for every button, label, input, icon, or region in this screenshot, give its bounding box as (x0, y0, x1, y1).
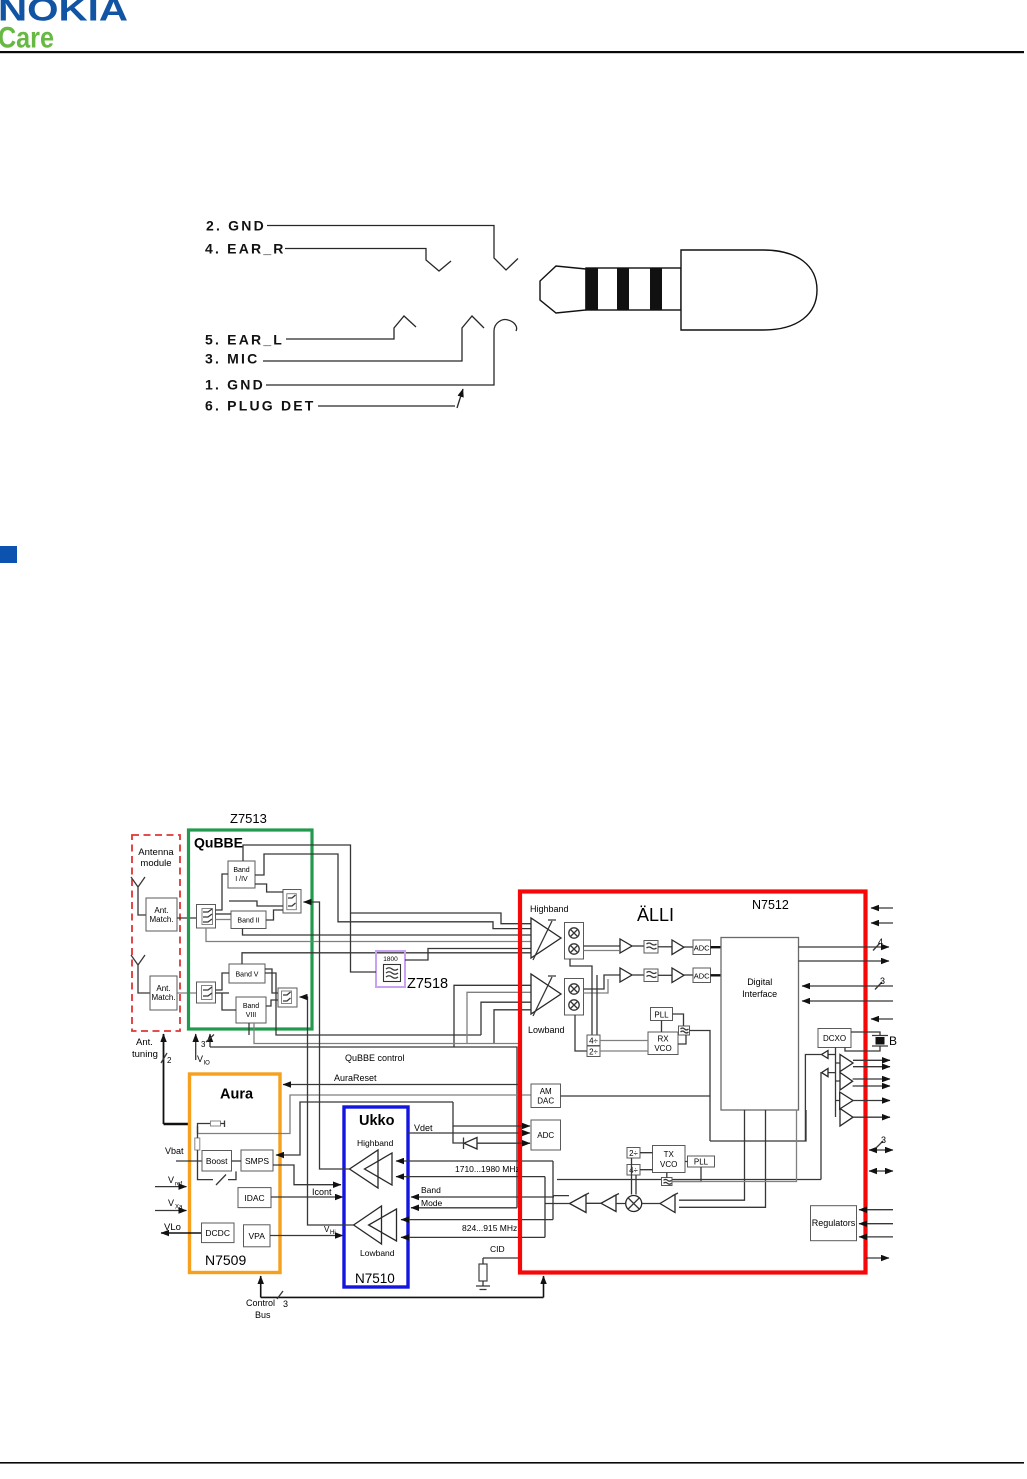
svg-text:1710...1980 MHz: 1710...1980 MHz (455, 1164, 520, 1174)
Z7518 filter module (376, 951, 405, 987)
wire 4. EAR_R with contact (285, 249, 451, 272)
IDAC box (238, 1188, 271, 1208)
svg-text:VIII: VIII (246, 1012, 257, 1019)
svg-text:1. GND: 1. GND (205, 377, 265, 393)
combiner switch box 1 (283, 890, 301, 914)
svg-text:ADC: ADC (537, 1131, 554, 1140)
svg-text:IO: IO (204, 1061, 211, 1067)
svg-text:AuraReset: AuraReset (334, 1073, 377, 1083)
wire HB mixer second output (584, 950, 620, 952)
bus LB ADC to digital interface (711, 974, 722, 976)
ADC box (Vdet) (531, 1120, 561, 1150)
wire LB mixer to baseband amp (584, 975, 621, 989)
wire buffer to LB ADC (684, 974, 693, 976)
svg-text:DCDC: DCDC (205, 1228, 230, 1238)
wire HB mixer LO tap to divider (570, 959, 592, 1035)
wire 6. PLUG DET with arrow (318, 405, 455, 407)
Lowband LNA triangle (531, 974, 561, 1014)
svg-text:Bus: Bus (255, 1310, 271, 1320)
plug ring 2 (617, 268, 629, 310)
svg-text:Lowband: Lowband (528, 1025, 565, 1035)
TX section (627, 1148, 640, 1159)
Band I/IV box (228, 861, 255, 888)
Ukko HB output up to QuBBE combiner (304, 902, 350, 1169)
Ukko LB output up to QuBBE combiner (300, 997, 354, 1225)
svg-text:PLL: PLL (694, 1158, 709, 1167)
svg-text:6. PLUG DET: 6. PLUG DET (205, 398, 316, 414)
TX mixer (626, 1196, 642, 1212)
loop verticals (545, 1161, 553, 1237)
vertical resistor (195, 1138, 200, 1150)
svg-text:ADC: ADC (694, 944, 710, 953)
svg-text:VCO: VCO (654, 1044, 671, 1053)
svg-text:1800: 1800 (383, 956, 398, 963)
Highband mixer box (565, 923, 584, 960)
svg-text:Mode: Mode (421, 1198, 443, 1208)
svg-text:Aura: Aura (220, 1087, 254, 1103)
wire QuBBE to ALLI highband 4 (gray) (206, 928, 531, 942)
SMPS box (241, 1150, 273, 1171)
wire QuBBE to ALLI highband 3 (243, 929, 532, 936)
Aura orange box (190, 1074, 281, 1273)
svg-text:Interface: Interface (742, 989, 777, 999)
svg-text:Regulators: Regulators (812, 1218, 856, 1228)
wire antmatch2 to switch (177, 992, 197, 994)
svg-text:V: V (168, 1198, 174, 1208)
antenna switch box 1 (197, 905, 216, 929)
svg-text:Ant.: Ant. (136, 1037, 153, 1048)
svg-text:PLL: PLL (654, 1011, 669, 1020)
svg-text:5. EAR_L: 5. EAR_L (205, 332, 284, 348)
clock buffer 2 (840, 1073, 853, 1091)
svg-text:Xa: Xa (175, 1205, 183, 1211)
svg-text:Highband: Highband (530, 904, 569, 914)
QuBBE internal wires lower (216, 973, 230, 990)
svg-text:Antenna: Antenna (138, 847, 174, 858)
plug shaft (586, 268, 681, 310)
Ukko blue box (344, 1107, 408, 1287)
svg-text:824...915 MHz: 824...915 MHz (462, 1223, 517, 1233)
svg-text:N7509: N7509 (205, 1252, 246, 1268)
diode (464, 1138, 477, 1150)
QuBBE bottom Vio arrow (195, 1034, 197, 1060)
bottom right output (866, 1257, 889, 1259)
svg-text:Band II: Band II (237, 918, 259, 925)
wire LB chain LO tap to divider (587, 975, 597, 1046)
svg-text:3. MIC: 3. MIC (205, 351, 259, 367)
Regulators box (811, 1206, 857, 1241)
clock output arrows (853, 1059, 890, 1061)
bus HB ADC to digital interface (711, 946, 722, 948)
svg-text:2: 2 (167, 1056, 172, 1065)
wire QuBBE to ALLI lowband 4 (494, 1010, 531, 1044)
svg-text:I /IV: I /IV (235, 876, 248, 883)
svg-text:V: V (168, 1175, 174, 1185)
LB baseband amp (620, 968, 632, 982)
HB buffer amp (672, 940, 684, 955)
svg-text:Band: Band (233, 867, 249, 874)
LB buffer amp (672, 968, 684, 983)
crystal (845, 1032, 888, 1051)
svg-text:3: 3 (880, 976, 885, 986)
svg-text:Hi: Hi (330, 1230, 336, 1236)
svg-text:SMPS: SMPS (245, 1156, 269, 1166)
divider verticals to TX mixer (632, 1158, 637, 1195)
wire filter to HB buffer (658, 946, 672, 948)
TX chain wires (545, 1202, 661, 1204)
svg-text:2. GND: 2. GND (206, 218, 266, 234)
svg-text:4÷: 4÷ (629, 1166, 638, 1175)
VPA wire to Ukko VHi (270, 1235, 343, 1237)
wire QuBBE to ALLI highband 2 (255, 854, 531, 929)
wire amp to LB channel filter (632, 974, 644, 976)
svg-text:ÄLLI: ÄLLI (637, 905, 674, 925)
plug body (681, 250, 817, 330)
Band wire from digital interface (557, 1179, 821, 1181)
svg-text:2÷: 2÷ (589, 1048, 598, 1057)
svg-text:4. EAR_R: 4. EAR_R (205, 241, 286, 257)
Highband LNA triangle (531, 918, 561, 958)
svg-text:3: 3 (881, 1135, 886, 1145)
svg-text:N7512: N7512 (752, 898, 789, 912)
wire LB mixer second output (584, 979, 609, 993)
Control Bus (261, 1296, 544, 1298)
ground (476, 1286, 490, 1290)
svg-text:N7510: N7510 (355, 1271, 395, 1286)
clock buffers bus (835, 1048, 837, 1118)
Boost-SMPS wire (232, 1160, 242, 1162)
svg-text:B: B (889, 1034, 897, 1048)
plug ring 1 (586, 268, 598, 310)
clock buffer 4 (840, 1109, 853, 1127)
Boost box (202, 1151, 232, 1172)
Band V box (229, 964, 265, 983)
svg-text:V: V (197, 1054, 203, 1064)
switch under Boost (198, 1161, 237, 1185)
svg-text:4: 4 (878, 937, 883, 947)
svg-text:Band: Band (243, 1003, 259, 1010)
Lowband mixer box (565, 979, 584, 1016)
antenna 2 (131, 955, 150, 993)
svg-text:module: module (140, 858, 171, 869)
wire filter to LB buffer (658, 974, 672, 976)
wire HB mixer to baseband amp (584, 945, 621, 947)
Ukko lowband PA (double triangle) (354, 1206, 382, 1244)
LB channel filter (644, 969, 658, 982)
svg-text:QuBBE control: QuBBE control (345, 1053, 405, 1063)
svg-text:CID: CID (490, 1244, 505, 1254)
VPA box (244, 1225, 271, 1247)
antenna module dashed box (132, 835, 180, 1031)
PLL box RX (651, 1008, 673, 1021)
Ukko LB input wires from ALLI (401, 1219, 553, 1221)
HB baseband amp (620, 939, 632, 953)
svg-text:Digital: Digital (747, 977, 772, 987)
antenna 1 (131, 877, 146, 915)
SMPS output to Ukko (273, 1165, 341, 1185)
wire 2. GND with contact (267, 226, 518, 271)
ALLI red box N7512 (520, 892, 866, 1273)
svg-text:QuBBE: QuBBE (194, 835, 243, 851)
clock buffer 3 (840, 1092, 853, 1109)
QuBBE control wire (210, 1047, 517, 1208)
plug tip (540, 266, 586, 313)
svg-text:Highband: Highband (357, 1138, 394, 1148)
QuBBE internal wires upper (216, 874, 229, 910)
svg-text:Vbat: Vbat (165, 1146, 184, 1156)
svg-text:Match.: Match. (151, 993, 175, 1002)
DCXO box (818, 1029, 851, 1048)
svg-text:Care: Care (0, 22, 54, 55)
svg-text:Match.: Match. (149, 915, 173, 924)
svg-text:4÷: 4÷ (589, 1037, 598, 1046)
wire 5. EAR_L with contact (286, 316, 416, 339)
Z7518 wires (351, 913, 377, 972)
antenna switch box 2 (197, 982, 216, 1003)
regulator inputs crossing red edge (859, 1209, 893, 1211)
svg-text:Z7513: Z7513 (230, 811, 267, 826)
top right input arrows (871, 907, 893, 909)
svg-text:tuning: tuning (132, 1049, 158, 1060)
svg-text:Lowband: Lowband (360, 1248, 395, 1258)
svg-text:Control: Control (246, 1298, 275, 1308)
svg-text:Vdet: Vdet (414, 1123, 433, 1133)
DI inputs right (802, 985, 893, 987)
wire QuBBE to ALLI lowband 1 (454, 985, 531, 1047)
DI outputs right (799, 946, 890, 948)
svg-text:3: 3 (283, 1299, 288, 1309)
wire Mode from ALLI to Ukko (411, 1207, 517, 1209)
LB ADC (693, 968, 711, 983)
DCDC box (202, 1223, 235, 1243)
svg-text:Ant.: Ant. (156, 984, 170, 993)
header rule (0, 51, 1024, 53)
svg-text:VPA: VPA (249, 1231, 266, 1241)
wire 1. GND with hook contact (266, 320, 517, 385)
wire QuBBE to ALLI highband 1 (243, 845, 531, 924)
plug ring 3 (650, 268, 662, 310)
svg-text:3: 3 (201, 1040, 206, 1049)
wire LB mixer LO tap to divider (575, 1015, 587, 1051)
svg-text:VCO: VCO (660, 1160, 677, 1169)
TX buffer amp middle (601, 1195, 616, 1212)
DI bottom verticals (679, 1110, 745, 1200)
svg-text:VLo: VLo (164, 1222, 181, 1233)
TX loop filter (662, 1178, 673, 1186)
wire 3. MIC with contact (263, 316, 484, 361)
RX filter output down (690, 1031, 711, 1142)
svg-text:DCXO: DCXO (823, 1034, 846, 1043)
Ukko HB input wires from ALLI (396, 1160, 553, 1162)
Digital Interface box (721, 938, 799, 1111)
CID resistor (479, 1264, 487, 1281)
svg-text:2÷: 2÷ (629, 1149, 638, 1158)
AM DAC box (531, 1084, 561, 1108)
bidirectional bus right (869, 1149, 893, 1151)
wire QuBBE to ALLI lowband gray bus (254, 1023, 520, 1044)
QuBBE green box (189, 830, 313, 1029)
section bullet (0, 546, 17, 563)
Band II box (231, 911, 266, 929)
DI bottom right loop (710, 1110, 806, 1141)
svg-text:IDAC: IDAC (244, 1193, 264, 1203)
wire QuBBE to ALLI lowband 3 (481, 1002, 531, 1035)
left buffers (822, 1051, 828, 1059)
svg-text:Boost: Boost (206, 1156, 228, 1166)
divider boxes RX (587, 1035, 600, 1046)
svg-text:Ukko: Ukko (359, 1113, 395, 1129)
RX loop filter (679, 1026, 690, 1035)
wire antmatch1 to switch (177, 917, 197, 919)
svg-text:AM: AM (540, 1087, 552, 1096)
svg-text:ADC: ADC (694, 972, 710, 981)
Ukko highband PA (double triangle) (350, 1150, 379, 1188)
svg-text:Band V: Band V (236, 972, 259, 979)
clock buffer 1 (840, 1055, 853, 1072)
HB channel filter (644, 941, 658, 954)
Band VIII box (236, 997, 266, 1023)
svg-text:Ant.: Ant. (154, 906, 168, 915)
TX buffer amp left (570, 1195, 587, 1213)
svg-text:DAC: DAC (537, 1097, 554, 1106)
Ant. Match. box 2 (150, 976, 177, 1010)
combiner switch box 2 (278, 988, 297, 1007)
RX VCO box (648, 1032, 678, 1055)
gray wire inductor to AM DAC (198, 1095, 532, 1134)
HB ADC (693, 940, 711, 955)
TX buffer amp right (660, 1195, 675, 1213)
footer rule (0, 1462, 1024, 1464)
svg-text:RX: RX (657, 1035, 669, 1044)
QuBBE control arrow with 3 (209, 1034, 211, 1047)
wire buffer to HB ADC (684, 946, 693, 948)
Ant. Match. box 1 (146, 898, 177, 931)
svg-text:Z7518: Z7518 (407, 976, 448, 992)
svg-text:Band: Band (421, 1185, 441, 1195)
wire amp to HB channel filter (632, 945, 644, 947)
inductor at Aura top (198, 1124, 211, 1134)
wire QuBBE to ALLI lowband bus (265, 973, 481, 1035)
wire QuBBE to ALLI highband 6 (242, 953, 531, 964)
svg-text:Icont: Icont (312, 1187, 332, 1197)
svg-text:TX: TX (664, 1150, 675, 1159)
wire QuBBE to ALLI lowband 2 (467, 992, 531, 1043)
SMPS control from AM DAC path (276, 1102, 453, 1155)
Icont wire IDAC to Ukko (271, 1196, 343, 1198)
